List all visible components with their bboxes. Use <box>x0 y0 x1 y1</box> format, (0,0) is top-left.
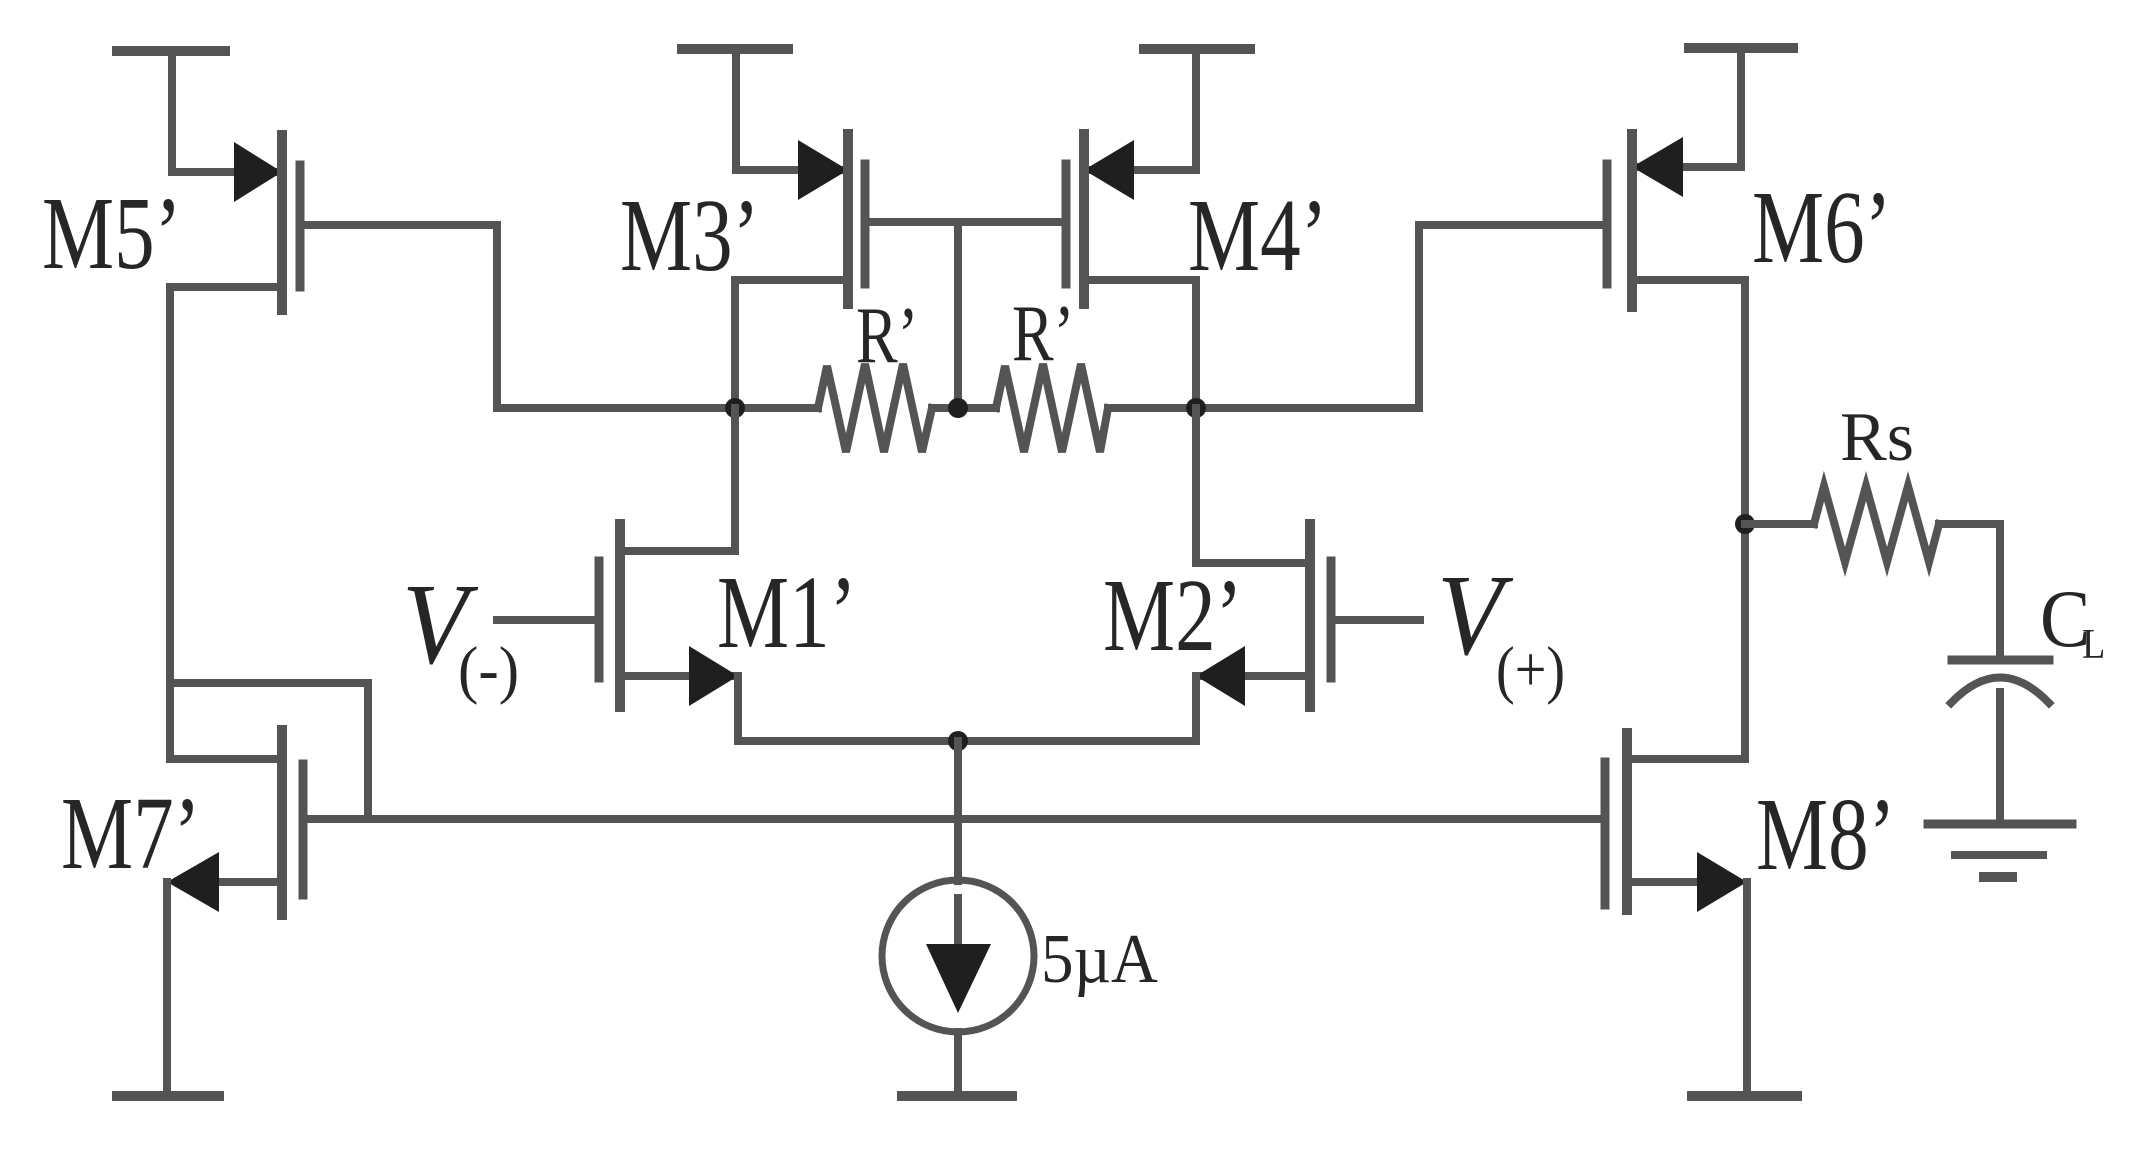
ground symbol below M8' <box>1692 1091 1797 1101</box>
wire M3'-M4' gate bus <box>865 218 1064 226</box>
wire node B to M6' gate <box>1419 225 1607 408</box>
capacitor CL <box>1951 660 2049 703</box>
junction dot node A <box>725 398 745 418</box>
VDD rail symbol above M4' <box>1144 49 1250 170</box>
resistor R' (left) <box>818 364 932 452</box>
wire M5' drain down to M7' drain <box>170 287 282 759</box>
svg-text:R’: R’ <box>1012 289 1074 378</box>
svg-text:M1’: M1’ <box>717 556 857 671</box>
junction dot tail node <box>948 731 968 751</box>
wire Rs to capacitor CL <box>1996 524 2004 658</box>
wire M2' source to tail node <box>958 676 1196 741</box>
transistor M1' <box>497 524 738 707</box>
wire CL to ground <box>1996 692 2004 822</box>
wire M4' drain to node B <box>1084 280 1196 408</box>
current source 5uA <box>882 880 1034 1094</box>
svg-text:M7’: M7’ <box>61 777 201 892</box>
transistor M5' <box>172 135 300 310</box>
label V(-) input <box>402 560 519 705</box>
svg-text:(-): (-) <box>458 633 519 705</box>
VDD rail symbol above M6' <box>1689 48 1793 167</box>
resistor Rs <box>1745 486 2000 562</box>
svg-text:5µA: 5µA <box>1041 920 1158 998</box>
wire M7' gate tie (diode connection) <box>170 683 368 819</box>
junction dot middle node <box>948 398 968 418</box>
wire tail node down to current source <box>954 741 962 881</box>
wire M3' drain to node A <box>735 280 848 408</box>
resistor R' (right) <box>996 364 1108 452</box>
transistor M8' <box>1605 733 1747 912</box>
svg-text:M2’: M2’ <box>1103 559 1243 674</box>
ground symbol below CL <box>1928 824 2072 877</box>
transistor M7' <box>167 730 303 915</box>
svg-text:Rs: Rs <box>1840 399 1914 476</box>
wire M6' drain down to M8' drain <box>1632 280 1745 759</box>
transistor M4' <box>1066 134 1196 304</box>
wire bus right segment (node B) <box>1108 404 1419 412</box>
gate bus wire M7' to M8' <box>303 815 1605 823</box>
wire node B to M2' drain <box>1196 408 1310 563</box>
svg-text:M8’: M8’ <box>1756 778 1896 893</box>
VDD rail symbol above M3' <box>682 49 788 170</box>
label V(+) input <box>1437 551 1565 705</box>
ground symbol below M7' <box>117 1091 219 1101</box>
transistor M2' <box>1196 524 1420 707</box>
svg-text:M6’: M6’ <box>1752 171 1892 286</box>
wire M1' source to tail node <box>738 676 958 741</box>
wire bus left segment (node A) <box>497 404 818 412</box>
svg-text:M4’: M4’ <box>1188 179 1328 294</box>
wire gate bus to middle node <box>954 222 962 408</box>
junction dot node B <box>1186 398 1206 418</box>
transistor M3' <box>736 134 865 304</box>
wire M7' source to ground <box>163 882 171 1096</box>
svg-text:L: L <box>2082 620 2105 667</box>
transistor M6' <box>1607 134 1741 307</box>
svg-text:M5’: M5’ <box>42 177 182 292</box>
wire M5' gate to node A <box>300 225 497 408</box>
svg-text:R’: R’ <box>856 291 918 380</box>
svg-text:M3’: M3’ <box>620 179 760 294</box>
wire between the two R' resistors <box>932 404 996 412</box>
VDD rail symbol above M5' <box>117 51 225 172</box>
wire node A to M1' drain <box>620 408 735 551</box>
junction dot output node <box>1735 514 1755 534</box>
label CL <box>2040 574 2105 667</box>
ground symbol below current source <box>902 1091 1012 1101</box>
svg-text:(+): (+) <box>1496 634 1565 706</box>
wire M8' source to ground <box>1743 882 1751 1096</box>
